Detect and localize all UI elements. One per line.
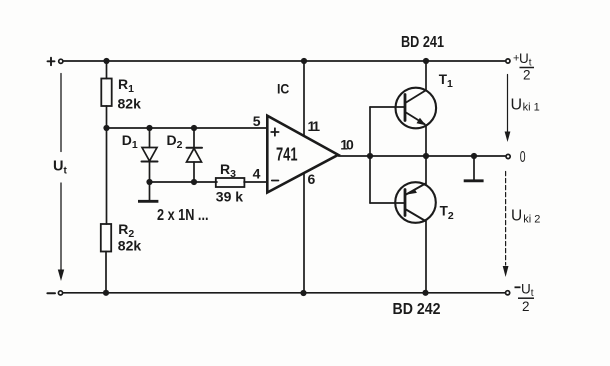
transistor Q1 (T1, NPN BD241) bbox=[396, 88, 437, 129]
op-amp minus input marker bbox=[272, 180, 279, 182]
ground (right, at output) bbox=[464, 156, 484, 181]
node bottom rail / R2 bbox=[103, 290, 109, 296]
node output to bases bbox=[367, 153, 373, 159]
wire T1 emitter lead bbox=[425, 125, 427, 156]
wire positive supply pin 11 bbox=[303, 61, 305, 136]
svg-text:39 k: 39 k bbox=[216, 189, 243, 205]
wire T2 base bbox=[370, 202, 404, 204]
terminal 0 (output) bbox=[506, 154, 510, 158]
wire T1 collector lead bbox=[425, 61, 427, 91]
wire T1 base bbox=[370, 106, 404, 108]
diode D1 bbox=[142, 128, 158, 182]
svg-text:6: 6 bbox=[308, 171, 316, 187]
svg-text:11: 11 bbox=[308, 118, 321, 134]
node D2 anode bottom bbox=[191, 179, 197, 185]
wire op-amp output pin 10 bbox=[339, 155, 506, 157]
resistor R1 bbox=[101, 79, 111, 107]
wire R3 to inverting input pin 4 bbox=[244, 181, 268, 183]
node D1 cathode / ground stub bbox=[146, 179, 152, 185]
diode D2 bbox=[187, 128, 203, 182]
terminal +Ut/2 (top right) bbox=[506, 59, 510, 63]
svg-text:BD 242: BD 242 bbox=[393, 301, 441, 318]
wire negative supply pin 6 bbox=[303, 174, 305, 293]
node bottom rail T2 collector bbox=[422, 290, 428, 296]
label -Ut/2 (bottom right) bbox=[515, 282, 535, 315]
node D2 cathode top bbox=[191, 125, 197, 131]
svg-text:4: 4 bbox=[253, 166, 261, 182]
svg-text:82k: 82k bbox=[118, 95, 142, 111]
wire T2 emitter lead bbox=[425, 156, 427, 184]
terminal -Ut/2 (bottom right) bbox=[506, 291, 510, 295]
wire left Ut measurement line (lower segment with arrow) bbox=[58, 183, 64, 281]
terminal + (top left input) bbox=[48, 58, 63, 65]
wire left Ut measurement line (upper segment) bbox=[60, 74, 62, 152]
node top rail / R1 bbox=[103, 58, 109, 64]
wire bottom supply rail bbox=[63, 292, 505, 294]
node top rail T1 collector bbox=[423, 58, 429, 64]
op-amp U1 741 triangle bbox=[267, 116, 338, 193]
node output at right ground tap bbox=[471, 153, 477, 159]
wire R1 top lead bbox=[106, 61, 108, 79]
wire noninverting input (pin 5 net) bbox=[107, 127, 268, 129]
svg-text:2 x 1N ...: 2 x 1N ... bbox=[157, 207, 209, 224]
svg-text:2: 2 bbox=[522, 299, 530, 314]
op-amp plus input marker bbox=[271, 128, 278, 135]
resistor R3 bbox=[216, 178, 245, 187]
wire R1 bottom to mid node to R2 top bbox=[106, 106, 108, 224]
wire base branch vertical bbox=[369, 107, 371, 203]
resistor R2 bbox=[101, 224, 111, 252]
transistor Q2 (T2, PNP BD242) bbox=[395, 182, 436, 223]
arrow Uki2 (right, dashed, 0 to -Ut/2) bbox=[503, 172, 509, 278]
arrow Uki1 (right, +Ut/2 to 0) bbox=[505, 75, 511, 143]
svg-text:BD 241: BD 241 bbox=[401, 34, 444, 51]
wire top supply rail bbox=[64, 60, 506, 62]
label +Ut/2 (top right) bbox=[513, 51, 534, 83]
svg-text:IC: IC bbox=[277, 80, 289, 96]
wire T2 collector lead bbox=[425, 221, 427, 293]
node output junction T1/T2 bbox=[423, 153, 429, 159]
svg-text:2: 2 bbox=[523, 68, 531, 83]
node D1 anode bbox=[146, 125, 152, 131]
node top rail pin 11 bbox=[301, 58, 307, 64]
svg-text:82k: 82k bbox=[118, 238, 142, 254]
wire R2 bottom lead bbox=[105, 252, 107, 293]
svg-text:10: 10 bbox=[340, 137, 354, 153]
svg-text:741: 741 bbox=[276, 145, 298, 165]
svg-text:5: 5 bbox=[253, 113, 261, 129]
terminal - (bottom left input) bbox=[47, 291, 62, 295]
node mid divider bbox=[103, 125, 109, 131]
node bottom rail pin 6 bbox=[300, 290, 306, 296]
wire inverting input lower net bbox=[150, 181, 218, 183]
svg-text:0: 0 bbox=[520, 149, 526, 166]
ground (left, under D1) bbox=[138, 182, 158, 201]
